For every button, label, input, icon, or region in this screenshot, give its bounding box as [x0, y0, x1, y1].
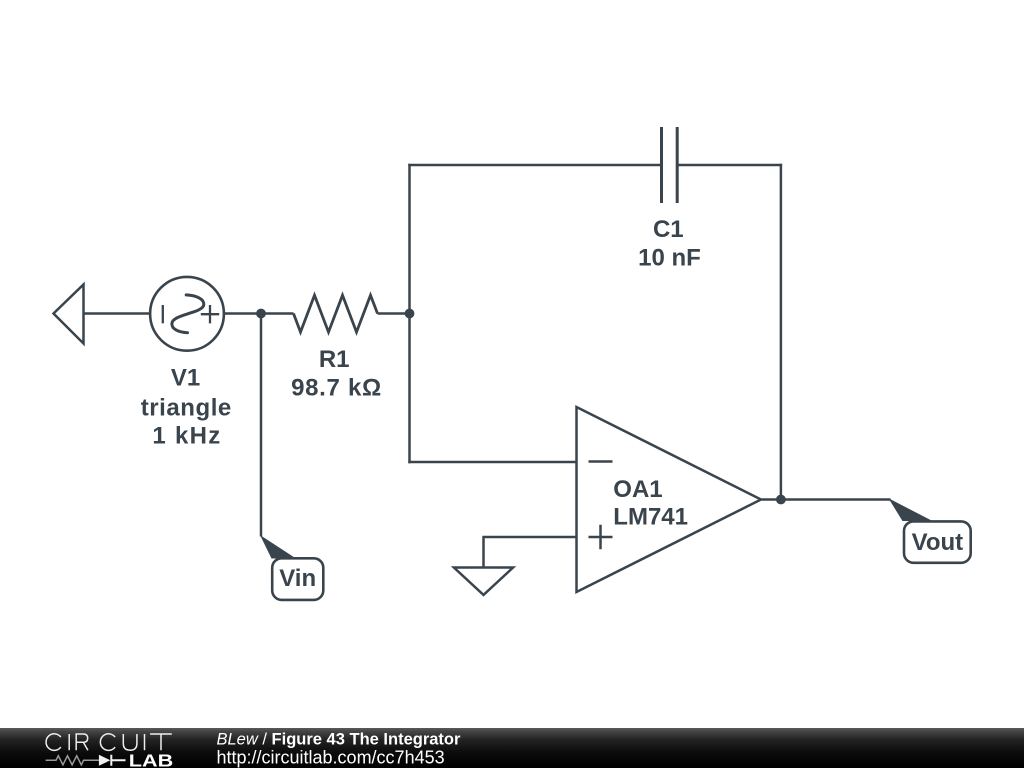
V1 plus sign — [201, 305, 219, 323]
wire node A to R1 — [261, 312, 294, 315]
node A junction — [256, 309, 266, 319]
node B junction — [405, 309, 415, 319]
wire right vertical to node C — [780, 164, 783, 500]
svg-text:LAB: LAB — [129, 751, 173, 768]
svg-text:1 kHz: 1 kHz — [152, 423, 221, 450]
svg-text:triangle: triangle — [141, 395, 232, 422]
op-amp minus sign — [589, 460, 613, 463]
logo diode bar — [111, 755, 125, 766]
logo letter I — [68, 734, 70, 750]
wire op-amp plus input to ground — [484, 537, 577, 568]
V1 sine symbol — [172, 295, 204, 333]
wire V1 to node A — [224, 312, 261, 315]
input terminal arrow — [54, 285, 84, 344]
logo letter T — [150, 734, 172, 750]
svg-text:LM741: LM741 — [613, 504, 688, 531]
node C junction — [776, 495, 786, 505]
logo squiggle resistor — [46, 756, 99, 765]
Vin node box — [272, 558, 323, 600]
logo letter C — [46, 734, 61, 751]
wire to op-amp inverting input — [408, 461, 576, 464]
wire node B down — [408, 314, 411, 464]
wire node B up — [408, 164, 411, 314]
voltage source V1 circle — [150, 277, 224, 351]
svg-text:10 nF: 10 nF — [638, 245, 701, 272]
logo letter R — [76, 734, 88, 750]
svg-text:98.7 kΩ: 98.7 kΩ — [291, 375, 382, 402]
Vout node box — [904, 521, 971, 562]
capacitor C1 right plate — [676, 127, 679, 203]
resistor R1 — [294, 295, 378, 332]
Vin flag pointer — [260, 535, 296, 559]
svg-text:Vout: Vout — [912, 529, 964, 556]
logo letter I — [144, 734, 146, 750]
svg-text:http://circuitlab.com/cc7h453: http://circuitlab.com/cc7h453 — [217, 748, 445, 768]
ground — [454, 568, 513, 595]
wire op-amp output — [762, 498, 891, 501]
V1 minus terminal bar — [162, 305, 164, 323]
op-amp plus sign — [589, 525, 613, 549]
svg-text:C1: C1 — [653, 216, 684, 243]
svg-text:Vin: Vin — [279, 565, 316, 592]
wire R1 to node B — [378, 312, 410, 315]
capacitor C1 left plate — [660, 127, 663, 203]
svg-text:BLew / Figure 43 The Integrato: BLew / Figure 43 The Integrator — [217, 730, 461, 748]
Vout flag pointer — [889, 498, 933, 521]
wire top left to capacitor — [408, 164, 661, 167]
op-amp U1 triangle — [577, 407, 762, 592]
svg-text:R1: R1 — [319, 346, 350, 373]
wire node A down to Vin — [260, 314, 263, 537]
svg-text:V1: V1 — [171, 365, 200, 392]
wire capacitor to right corner — [677, 164, 782, 167]
logo letter U — [123, 734, 137, 750]
wire arrow to V1 — [84, 312, 152, 315]
logo letter C — [100, 734, 115, 751]
svg-text:OA1: OA1 — [613, 476, 662, 503]
logo diode — [99, 755, 110, 766]
